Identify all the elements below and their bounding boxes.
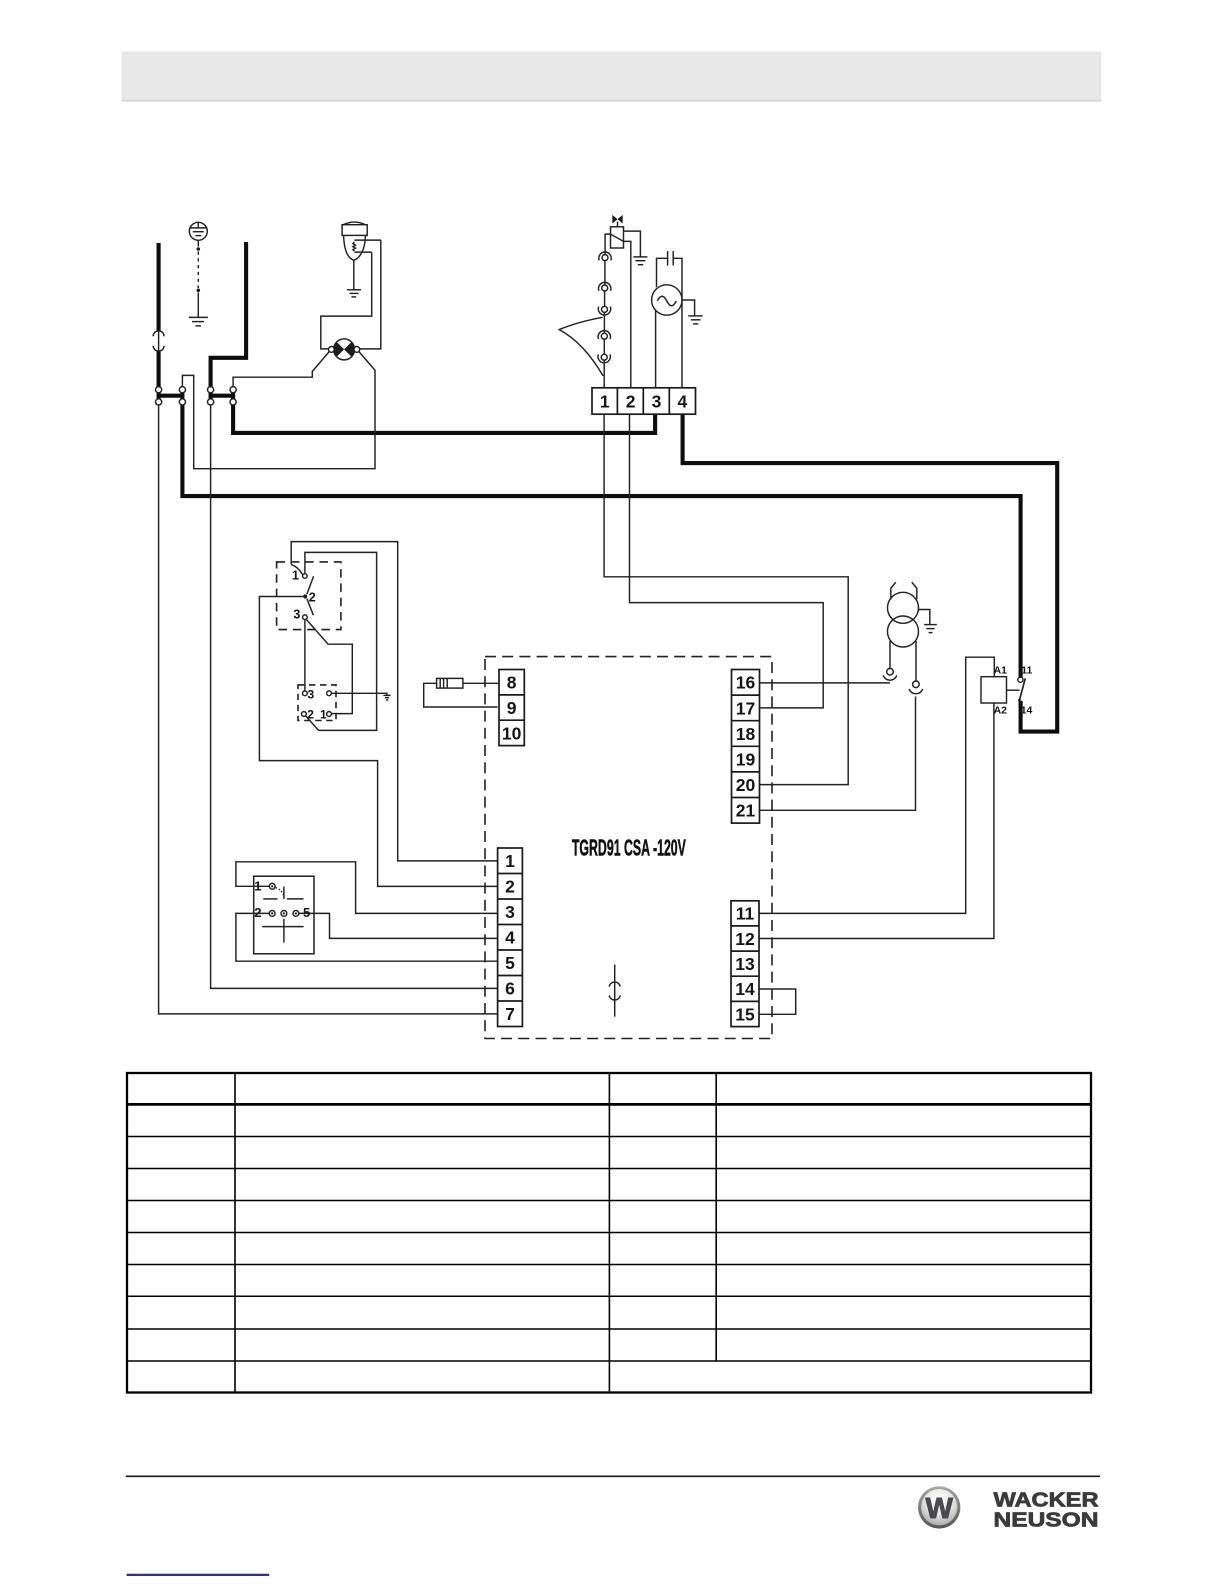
svg-text:11: 11 <box>1021 664 1032 676</box>
svg-text:2: 2 <box>254 905 261 920</box>
svg-text:14: 14 <box>735 979 755 999</box>
svg-text:2: 2 <box>626 392 636 412</box>
svg-text:13: 13 <box>735 954 755 974</box>
svg-text:12: 12 <box>735 929 755 949</box>
svg-text:14: 14 <box>1021 705 1033 717</box>
svg-text:2: 2 <box>505 877 515 897</box>
svg-text:1: 1 <box>505 851 515 871</box>
svg-text:9: 9 <box>507 698 517 718</box>
svg-text:8: 8 <box>507 673 517 693</box>
svg-text:19: 19 <box>736 750 756 770</box>
svg-text:3: 3 <box>308 687 315 701</box>
svg-text:W: W <box>926 1493 954 1525</box>
svg-text:11: 11 <box>736 904 755 924</box>
svg-text:15: 15 <box>735 1004 755 1024</box>
svg-text:3: 3 <box>505 902 515 922</box>
svg-text:10: 10 <box>502 723 522 743</box>
svg-text:16: 16 <box>736 673 756 693</box>
svg-text:21: 21 <box>736 801 756 821</box>
svg-text:3: 3 <box>293 608 300 622</box>
svg-text:2: 2 <box>309 591 316 605</box>
svg-text:1: 1 <box>320 707 327 721</box>
svg-text:7: 7 <box>505 1004 515 1024</box>
svg-text:5: 5 <box>303 905 310 920</box>
svg-text:3: 3 <box>652 392 662 412</box>
svg-text:5: 5 <box>505 953 515 973</box>
svg-text:1: 1 <box>600 392 610 412</box>
svg-text:4: 4 <box>505 928 515 948</box>
svg-text:20: 20 <box>736 775 756 795</box>
svg-text:1: 1 <box>254 878 261 893</box>
svg-text:1: 1 <box>292 569 299 583</box>
svg-text:4: 4 <box>678 392 688 412</box>
svg-text:18: 18 <box>736 724 756 744</box>
svg-text:NEUSON: NEUSON <box>994 1508 1099 1531</box>
svg-text:17: 17 <box>736 698 755 718</box>
svg-text:6: 6 <box>505 979 515 999</box>
svg-text:A2: A2 <box>994 705 1008 717</box>
svg-text:TGRD91 CSA -120V: TGRD91 CSA -120V <box>572 834 686 860</box>
svg-text:2: 2 <box>307 707 314 721</box>
svg-text:A1: A1 <box>994 664 1008 676</box>
